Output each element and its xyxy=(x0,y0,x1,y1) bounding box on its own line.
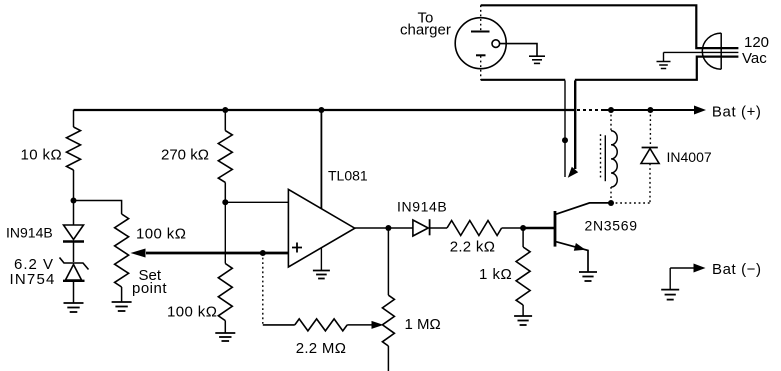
svg-text:100 kΩ: 100 kΩ xyxy=(167,304,217,321)
svg-text:point: point xyxy=(132,280,167,297)
svg-text:IN754: IN754 xyxy=(10,271,56,288)
svg-text:1 kΩ: 1 kΩ xyxy=(479,266,512,283)
svg-text:10 kΩ: 10 kΩ xyxy=(21,147,63,164)
svg-text:Vac: Vac xyxy=(742,50,767,67)
svg-text:IN914B: IN914B xyxy=(397,199,447,215)
svg-text:2.2 kΩ: 2.2 kΩ xyxy=(450,239,496,256)
svg-text:120: 120 xyxy=(744,34,769,51)
svg-text:Bat (−): Bat (−) xyxy=(712,261,762,278)
svg-text:100 kΩ: 100 kΩ xyxy=(136,226,186,243)
svg-text:Bat (+): Bat (+) xyxy=(712,103,762,120)
svg-text:1 MΩ: 1 MΩ xyxy=(405,316,441,333)
svg-text:270 kΩ: 270 kΩ xyxy=(161,147,209,164)
svg-text:IN4007: IN4007 xyxy=(667,149,712,165)
svg-text:TL081: TL081 xyxy=(328,168,368,184)
svg-text:IN914B: IN914B xyxy=(6,225,53,241)
svg-text:2N3569: 2N3569 xyxy=(585,218,638,234)
svg-text:charger: charger xyxy=(400,22,451,39)
svg-text:2.2 MΩ: 2.2 MΩ xyxy=(296,340,347,357)
